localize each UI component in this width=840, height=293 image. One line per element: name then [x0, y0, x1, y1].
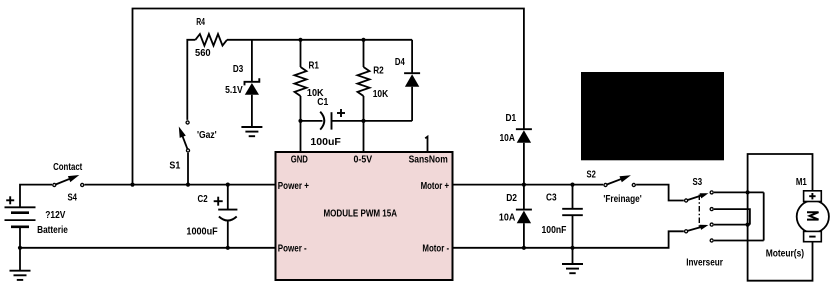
svg-text:1000uF: 1000uF [186, 226, 217, 237]
svg-text:?12V: ?12V [45, 210, 65, 221]
junction C3 top [570, 183, 574, 187]
svg-text:10A: 10A [500, 133, 516, 144]
svg-text:C1: C1 [317, 97, 328, 108]
switch S3 lower pole [686, 226, 706, 232]
ground (C3) [562, 263, 583, 265]
junction rail/outer loop [130, 183, 134, 187]
junction frame/throw1 [746, 190, 750, 194]
junction R2 top [361, 38, 365, 42]
junction R2 bottom node [361, 119, 365, 123]
svg-text:D4: D4 [395, 57, 405, 68]
junction R1 bottom node [298, 119, 302, 123]
svg-text:Contact: Contact [53, 162, 83, 173]
wire throw2 jog down [714, 209, 750, 225]
junction C2 top [226, 183, 230, 187]
wire S2 to S3 upper pole [636, 185, 684, 201]
wire Motor- rail [453, 231, 684, 248]
svg-text:Batterie: Batterie [37, 225, 68, 236]
svg-text:Inverseur: Inverseur [686, 257, 723, 268]
svg-text:'Freinage': 'Freinage' [603, 194, 641, 205]
capacitor C3 100nF [572, 185, 574, 209]
svg-text:Power -: Power - [278, 244, 307, 255]
motor plus terminal box [804, 191, 822, 202]
resistor R2 10K [363, 40, 365, 67]
svg-text:D3: D3 [233, 64, 244, 75]
S3 gang dash-dot link [698, 195, 700, 227]
wire bottom rail battery to module Power- [20, 247, 276, 249]
svg-text:SansNom: SansNom [409, 155, 448, 166]
SansNom stub wire [425, 137, 427, 152]
junction D1/D2 [522, 183, 526, 187]
svg-text:10K: 10K [373, 89, 389, 100]
switch S1 Gaz [180, 130, 188, 150]
svg-text:D2: D2 [506, 193, 517, 204]
svg-text:D1: D1 [506, 113, 517, 124]
svg-text:Power +: Power + [278, 181, 309, 192]
ground (battery) [10, 270, 31, 272]
battery B1 [20, 185, 52, 208]
svg-text:'Gaz': 'Gaz' [197, 130, 217, 141]
motor M1 circle [797, 201, 829, 233]
module PWM box [276, 152, 453, 280]
wire throw3 to motor frame [714, 224, 750, 226]
svg-text:C3: C3 [546, 192, 557, 203]
motor M letter (rotated) [807, 212, 819, 219]
junction frame/throw3 [746, 223, 750, 227]
svg-text:MODULE PWM 15A: MODULE PWM 15A [324, 208, 398, 219]
wire Motor+ rail [453, 184, 604, 186]
wire throw1 to crossover [714, 191, 764, 193]
motor minus sign [809, 236, 815, 238]
svg-text:0-5V: 0-5V [354, 155, 373, 166]
motor minus terminal box [804, 231, 822, 241]
junction C2 bottom [226, 246, 230, 250]
wire throw4 to crossover [714, 240, 764, 242]
svg-text:S3: S3 [693, 177, 703, 188]
black redaction rectangle [581, 72, 724, 160]
svg-text:R1: R1 [309, 60, 320, 71]
junction D2 bottom [522, 246, 526, 250]
svg-text:5.1V: 5.1V [225, 85, 243, 96]
junction R1 top [298, 38, 302, 42]
svg-text:100nF: 100nF [542, 225, 567, 236]
ground (D3) [241, 126, 262, 128]
diode D1 10A [516, 128, 532, 130]
switch S2 Freinage [606, 177, 628, 185]
svg-text:R2: R2 [373, 66, 384, 77]
svg-text:Motor +: Motor + [421, 181, 450, 192]
wire crossover vertical [763, 192, 765, 240]
motor frame wire box [748, 154, 813, 281]
junction battery minus [18, 246, 22, 250]
resistor R4 560 [187, 40, 195, 120]
zener diode D3 5.1V [251, 40, 253, 82]
S3 throw terminals [710, 191, 713, 194]
svg-text:10A: 10A [499, 213, 516, 224]
wire C3 ground stem [572, 248, 574, 264]
svg-text:100uF: 100uF [310, 137, 341, 148]
svg-text:GND: GND [291, 155, 308, 166]
svg-text:S4: S4 [68, 192, 78, 203]
capacitor C1 100uF [301, 120, 323, 122]
svg-text:S2: S2 [587, 169, 597, 180]
capacitor C2 1000uF [227, 185, 229, 210]
svg-text:560: 560 [195, 48, 211, 59]
junction S1/rail [186, 183, 190, 187]
motor plus sign [809, 195, 815, 197]
svg-text:S1: S1 [169, 161, 180, 172]
resistor R1 10K [300, 40, 302, 67]
wire outer loop from battery rail to D1 top [133, 9, 524, 185]
junction C3 bottom [570, 246, 574, 250]
svg-text:R4: R4 [196, 17, 205, 28]
svg-text:C2: C2 [198, 194, 208, 205]
svg-text:M1: M1 [796, 177, 807, 188]
svg-text:Moteur(s): Moteur(s) [766, 249, 804, 260]
switch S3 Inverseur (DPDT) upper pole [686, 194, 706, 200]
battery plus sign [6, 199, 14, 201]
svg-text:Motor -: Motor - [422, 244, 449, 255]
switch S4 Contact [54, 176, 75, 185]
diode D4 [411, 40, 413, 73]
diode D2 10A [523, 185, 525, 210]
C2 plus sign [214, 200, 223, 202]
wire top rail S4 to module Power+ [85, 184, 276, 186]
C1 plus sign [337, 112, 345, 114]
